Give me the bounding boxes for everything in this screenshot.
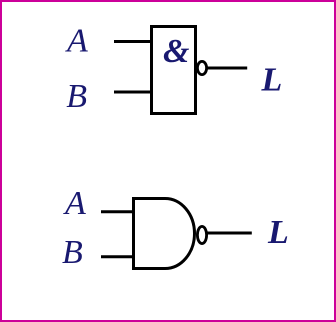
svg-text:A: A (65, 22, 88, 59)
svg-text:L: L (267, 214, 289, 251)
svg-text:&: & (163, 33, 190, 70)
svg-text:B: B (62, 234, 83, 271)
svg-text:B: B (66, 78, 87, 115)
svg-text:L: L (261, 61, 283, 98)
svg-text:A: A (63, 185, 86, 222)
